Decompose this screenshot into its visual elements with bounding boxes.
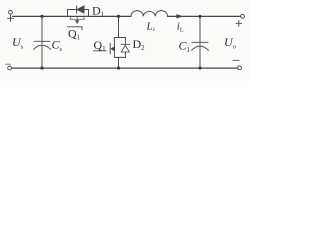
minus sign bottom-right [233, 59, 239, 61]
node B bottom of Cs [40, 66, 43, 69]
wire Q1/D2 bottom bus [114, 56, 125, 58]
inductor L coils [131, 11, 168, 17]
label Q1bar overline [68, 27, 83, 30]
diode D2 cathode bar [121, 43, 130, 45]
node switch bottom [117, 66, 120, 69]
capacitor Cs curved plate [34, 45, 51, 49]
capacitor C1 top plate [192, 41, 208, 43]
transistor Q1bar channel bar [70, 18, 85, 20]
terminal bottom-right circle [238, 66, 242, 70]
wire Q1/D2 top tee [114, 37, 125, 39]
node A top of Cs [40, 15, 43, 18]
transistor Q1 gate bar [109, 44, 111, 55]
terminal top-right circle [241, 14, 245, 18]
diode D2 cathode lead [124, 38, 126, 45]
wire top rail left segment [13, 15, 132, 17]
terminal top-left circle [9, 10, 13, 14]
diode D2 triangle [121, 45, 129, 52]
capacitor C1 curved plate [192, 46, 209, 50]
diode D2 anode lead [124, 52, 126, 57]
wire Cs branch lower [41, 45, 43, 68]
wire switch branch to bottom rail [118, 57, 120, 68]
current arrow iL [177, 15, 182, 18]
node switch top [117, 15, 120, 18]
wire bottom rail [12, 67, 238, 69]
minus sign bottom-left [6, 63, 11, 65]
transistor Q1bar arrow [76, 17, 78, 20]
diode D1 triangle [77, 6, 84, 13]
label Q1 underline [94, 50, 107, 52]
transistor Q1bar drain tick [70, 16, 72, 19]
node switch junction wire down [118, 16, 120, 37]
transistor Q1 arrow [111, 47, 114, 51]
wire C1 branch upper [199, 16, 201, 44]
diode D1 cathode bar [76, 6, 78, 13]
terminal bottom-left circle [8, 66, 12, 70]
wire C1 branch lower [199, 46, 201, 68]
node C1 bottom [198, 66, 201, 69]
wire top rail right segment [168, 15, 241, 17]
transistor Q1bar source tick [83, 16, 85, 19]
node C1 top [198, 15, 201, 18]
plus sign top-right [236, 21, 242, 27]
capacitor Cs top plate [34, 40, 50, 42]
diode D1 bridge wires [68, 10, 89, 17]
transistor Q1 channel [113, 38, 115, 58]
plus sign top-left [8, 15, 14, 21]
wire Cs branch upper [41, 16, 43, 43]
